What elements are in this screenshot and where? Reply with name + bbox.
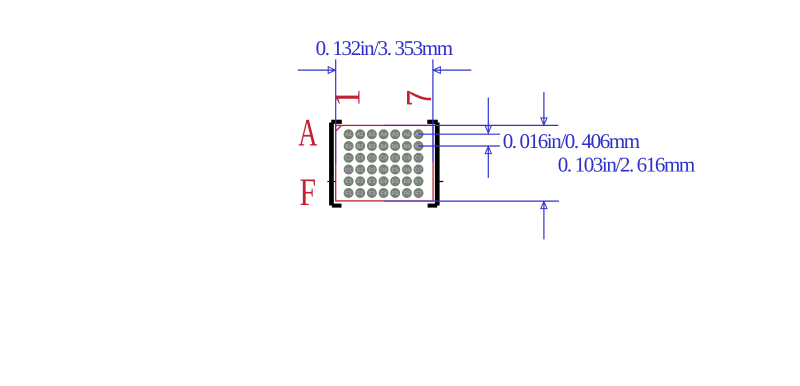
svg-text:F6: F6 (404, 191, 410, 197)
svg-text:A5: A5 (392, 132, 399, 138)
svg-text:0. 016in/0. 406mm: 0. 016in/0. 406mm (503, 129, 640, 153)
svg-text:D7: D7 (415, 167, 422, 173)
svg-text:D5: D5 (392, 167, 399, 173)
svg-text:A4: A4 (380, 132, 387, 138)
svg-text:E1: E1 (345, 179, 352, 185)
svg-text:B2: B2 (357, 144, 364, 150)
svg-text:C5: C5 (392, 156, 399, 162)
svg-text:D2: D2 (357, 167, 364, 173)
svg-text:E5: E5 (392, 179, 399, 185)
svg-text:B4: B4 (380, 144, 387, 150)
svg-text:F3: F3 (369, 191, 375, 197)
svg-text:C2: C2 (357, 156, 364, 162)
svg-text:B1: B1 (345, 144, 352, 150)
svg-text:B5: B5 (392, 144, 399, 150)
svg-text:F: F (300, 171, 317, 214)
svg-text:1: 1 (328, 88, 369, 107)
svg-text:C1: C1 (345, 156, 352, 162)
svg-text:E6: E6 (404, 179, 411, 185)
svg-text:A2: A2 (357, 132, 364, 138)
svg-text:E3: E3 (369, 179, 376, 185)
svg-text:A6: A6 (404, 132, 411, 138)
svg-text:C3: C3 (368, 156, 375, 162)
svg-text:F7: F7 (415, 191, 421, 197)
svg-text:E7: E7 (415, 179, 422, 185)
svg-text:B6: B6 (404, 144, 411, 150)
svg-text:E2: E2 (357, 179, 364, 185)
svg-text:E4: E4 (380, 179, 387, 185)
svg-text:C7: C7 (415, 156, 422, 162)
svg-text:C4: C4 (380, 156, 387, 162)
svg-text:B3: B3 (369, 144, 376, 150)
svg-text:A7: A7 (415, 132, 422, 138)
svg-text:F1: F1 (345, 191, 351, 197)
svg-text:D4: D4 (380, 167, 387, 173)
svg-text:A1: A1 (345, 132, 352, 138)
svg-text:A3: A3 (369, 132, 376, 138)
svg-text:0. 103in/2. 616mm: 0. 103in/2. 616mm (558, 153, 695, 177)
svg-text:F2: F2 (357, 191, 363, 197)
svg-text:A: A (298, 111, 317, 154)
svg-text:0. 132in/3. 353mm: 0. 132in/3. 353mm (316, 36, 453, 60)
svg-text:F4: F4 (380, 191, 386, 197)
svg-text:D6: D6 (403, 167, 410, 173)
svg-text:D3: D3 (368, 167, 375, 173)
svg-text:D1: D1 (345, 167, 352, 173)
svg-text:C6: C6 (403, 156, 410, 162)
svg-text:F5: F5 (392, 191, 398, 197)
svg-text:B7: B7 (415, 144, 422, 150)
